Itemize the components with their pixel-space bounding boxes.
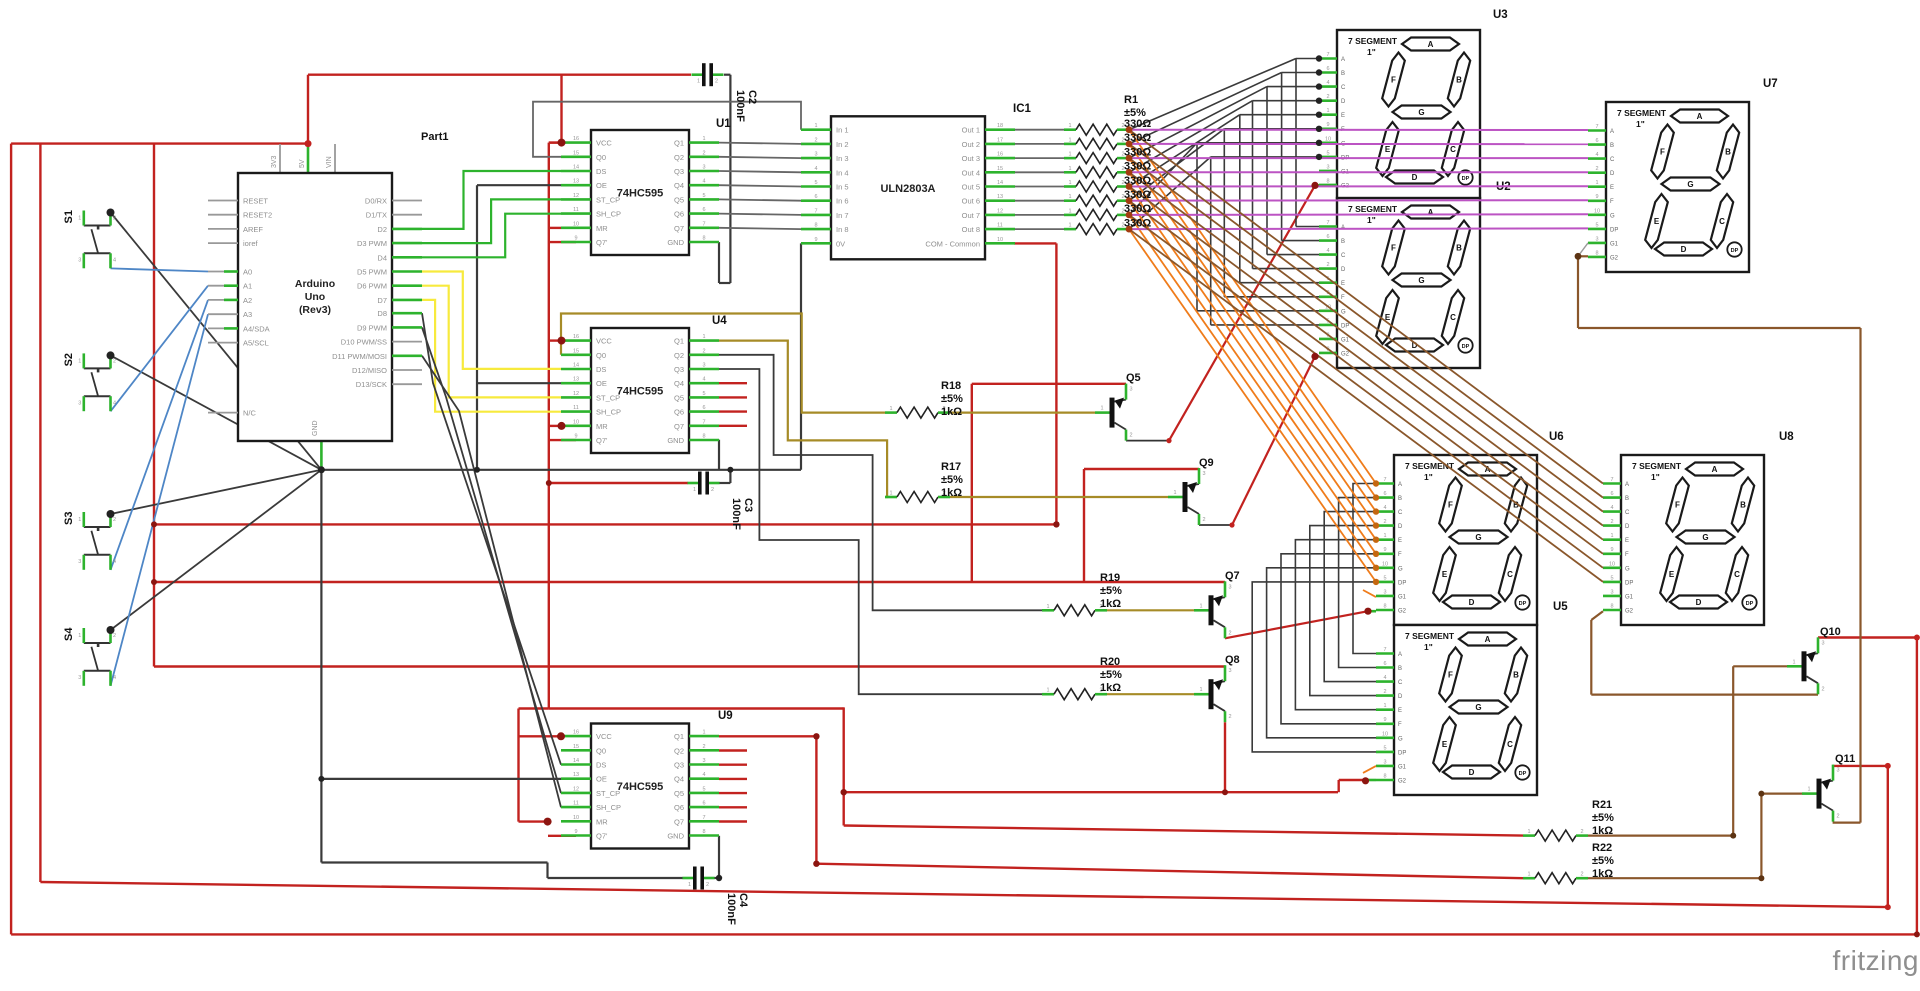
svg-text:1: 1 [1807, 787, 1810, 793]
svg-text:8: 8 [1383, 774, 1386, 780]
svg-text:Q7': Q7' [596, 436, 608, 445]
svg-text:8: 8 [1595, 250, 1598, 256]
svg-text:U3: U3 [1493, 9, 1508, 21]
svg-text:Part1: Part1 [421, 131, 449, 143]
svg-text:15: 15 [997, 166, 1003, 172]
svg-text:10: 10 [1382, 731, 1388, 737]
svg-text:D: D [1469, 768, 1475, 777]
svg-text:Q3: Q3 [674, 365, 684, 374]
svg-text:8: 8 [702, 236, 705, 242]
svg-text:DS: DS [596, 761, 606, 770]
svg-text:2: 2 [1595, 166, 1598, 172]
svg-text:11: 11 [573, 801, 579, 807]
svg-text:7: 7 [814, 208, 817, 214]
svg-text:D13/SCK: D13/SCK [356, 380, 387, 389]
svg-text:3V3: 3V3 [271, 155, 278, 168]
svg-text:SH_CP: SH_CP [596, 210, 621, 219]
svg-text:2: 2 [1836, 814, 1839, 820]
svg-text:N/C: N/C [243, 409, 257, 418]
svg-text:2: 2 [1821, 686, 1824, 692]
svg-text:G: G [1610, 213, 1615, 219]
svg-text:Out 5: Out 5 [962, 183, 980, 192]
svg-text:3: 3 [702, 363, 705, 369]
svg-text:6: 6 [702, 801, 705, 807]
svg-text:7: 7 [1383, 647, 1386, 653]
svg-text:A: A [1712, 465, 1718, 474]
svg-text:74HC595: 74HC595 [617, 386, 663, 398]
svg-text:1: 1 [78, 517, 81, 523]
svg-text:F: F [1610, 199, 1614, 205]
svg-text:B: B [1513, 671, 1519, 680]
svg-text:1: 1 [1383, 533, 1386, 539]
svg-text:E: E [1398, 708, 1402, 714]
svg-text:5: 5 [1383, 575, 1386, 581]
svg-text:U1: U1 [716, 118, 731, 130]
svg-text:±5%: ±5% [941, 393, 963, 405]
svg-text:3: 3 [1326, 164, 1329, 170]
svg-text:7 SEGMENT: 7 SEGMENT [1405, 631, 1455, 641]
svg-text:B: B [1341, 71, 1345, 77]
svg-text:A5/SCL: A5/SCL [243, 339, 269, 348]
svg-text:1: 1 [1068, 223, 1071, 229]
svg-text:GND: GND [667, 436, 684, 445]
svg-text:3: 3 [78, 675, 81, 681]
svg-text:Q10: Q10 [1820, 626, 1841, 638]
svg-text:G2: G2 [1398, 609, 1407, 615]
svg-text:IC1: IC1 [1013, 103, 1032, 115]
svg-text:3: 3 [1610, 589, 1613, 595]
svg-text:7 SEGMENT: 7 SEGMENT [1632, 461, 1682, 471]
svg-text:RESET2: RESET2 [243, 211, 272, 220]
svg-text:F: F [1341, 295, 1345, 301]
svg-text:13: 13 [573, 179, 579, 185]
svg-text:In 5: In 5 [836, 183, 849, 192]
svg-text:1": 1" [1424, 472, 1433, 482]
svg-text:A: A [1398, 482, 1402, 488]
svg-text:Q2: Q2 [674, 153, 684, 162]
svg-text:5: 5 [1383, 745, 1386, 751]
svg-text:1: 1 [1383, 703, 1386, 709]
svg-text:12: 12 [573, 786, 579, 792]
svg-text:6: 6 [814, 194, 817, 200]
svg-text:Out 8: Out 8 [962, 225, 980, 234]
svg-text:2: 2 [113, 633, 116, 639]
svg-text:6: 6 [1326, 234, 1329, 240]
svg-text:GND: GND [312, 420, 319, 436]
svg-text:In 7: In 7 [836, 211, 849, 220]
svg-text:2: 2 [113, 216, 116, 222]
svg-text:Q11: Q11 [1835, 753, 1855, 765]
svg-text:R22: R22 [1592, 842, 1612, 854]
svg-text:11: 11 [997, 223, 1003, 229]
svg-text:In 8: In 8 [836, 225, 849, 234]
svg-text:100nF: 100nF [725, 893, 737, 925]
svg-text:Q7': Q7' [596, 832, 608, 841]
svg-text:Q5: Q5 [674, 393, 684, 402]
svg-text:E: E [1669, 570, 1675, 579]
svg-text:1: 1 [1199, 687, 1202, 693]
svg-text:9: 9 [1383, 717, 1386, 723]
svg-text:±5%: ±5% [1592, 812, 1614, 824]
svg-text:Q9: Q9 [1199, 457, 1214, 469]
svg-text:2: 2 [1326, 94, 1329, 100]
svg-text:100nF: 100nF [734, 90, 746, 122]
svg-text:Q5: Q5 [674, 195, 684, 204]
svg-text:3: 3 [1383, 589, 1386, 595]
svg-text:D5 PWM: D5 PWM [357, 268, 387, 277]
svg-text:2: 2 [814, 137, 817, 143]
svg-text:1: 1 [702, 334, 705, 340]
svg-text:1: 1 [1792, 659, 1795, 665]
svg-text:G: G [1475, 533, 1481, 542]
svg-text:ULN2803A: ULN2803A [880, 183, 935, 195]
svg-text:7: 7 [702, 815, 705, 821]
svg-text:VCC: VCC [596, 139, 612, 148]
svg-text:2: 2 [1580, 872, 1583, 878]
svg-text:D0/R​X: D0/R​X [365, 197, 387, 206]
svg-text:4: 4 [702, 377, 705, 383]
svg-text:5: 5 [1595, 222, 1598, 228]
svg-text:E: E [1442, 740, 1448, 749]
svg-text:D8: D8 [377, 309, 387, 318]
svg-text:(Rev3): (Rev3) [299, 304, 331, 316]
svg-text:A: A [1485, 635, 1491, 644]
svg-text:4: 4 [113, 258, 116, 264]
svg-text:VCC: VCC [596, 732, 612, 741]
svg-text:DP: DP [1398, 750, 1406, 756]
svg-text:7: 7 [1326, 220, 1329, 226]
svg-text:7 SEGMENT: 7 SEGMENT [1348, 204, 1398, 214]
svg-text:1: 1 [697, 79, 700, 85]
svg-text:1: 1 [1068, 152, 1071, 158]
svg-text:G: G [1418, 276, 1424, 285]
svg-text:Q5: Q5 [1126, 372, 1141, 384]
svg-text:6: 6 [1610, 491, 1613, 497]
svg-text:G: G [1398, 736, 1403, 742]
svg-text:Q8: Q8 [1225, 654, 1240, 666]
svg-text:D: D [1681, 245, 1687, 254]
svg-text:E: E [1341, 113, 1345, 119]
svg-text:6: 6 [1383, 661, 1386, 667]
svg-text:DS: DS [596, 365, 606, 374]
svg-text:Q7: Q7 [674, 422, 684, 431]
svg-text:DP: DP [1398, 580, 1406, 586]
svg-text:S1: S1 [63, 210, 75, 223]
svg-text:1kΩ: 1kΩ [941, 406, 962, 418]
svg-text:2: 2 [1383, 519, 1386, 525]
svg-text:G2: G2 [1625, 609, 1634, 615]
svg-text:U5: U5 [1553, 601, 1568, 613]
svg-text:SH_CP: SH_CP [596, 408, 621, 417]
svg-text:S3: S3 [63, 512, 75, 525]
svg-text:16: 16 [997, 152, 1003, 158]
svg-text:A1: A1 [243, 282, 252, 291]
svg-text:9: 9 [574, 236, 577, 242]
svg-text:In 2: In 2 [836, 140, 849, 149]
svg-text:C2: C2 [746, 90, 758, 104]
svg-text:8: 8 [702, 829, 705, 835]
svg-text:3: 3 [1129, 387, 1132, 393]
svg-text:1: 1 [702, 136, 705, 142]
svg-text:1: 1 [1100, 406, 1103, 412]
svg-text:15: 15 [573, 744, 579, 750]
svg-text:D4: D4 [377, 253, 387, 262]
svg-text:Out 4: Out 4 [962, 168, 980, 177]
svg-text:3: 3 [78, 258, 81, 264]
svg-text:VIN: VIN [326, 156, 333, 168]
svg-text:9: 9 [1610, 547, 1613, 553]
svg-text:C: C [1341, 85, 1346, 91]
svg-text:2: 2 [113, 358, 116, 364]
svg-text:DP: DP [1519, 601, 1527, 607]
svg-text:D2: D2 [377, 225, 387, 234]
svg-text:D9 PWM: D9 PWM [357, 323, 387, 332]
svg-text:E: E [1341, 281, 1345, 287]
svg-text:OE: OE [596, 775, 607, 784]
svg-text:2: 2 [715, 79, 718, 85]
svg-text:1: 1 [1068, 166, 1071, 172]
svg-text:12: 12 [997, 208, 1003, 214]
svg-text:SH_CP: SH_CP [596, 803, 621, 812]
svg-text:18: 18 [997, 123, 1003, 129]
svg-text:AREF: AREF [243, 225, 263, 234]
svg-text:A: A [1625, 482, 1629, 488]
svg-text:2: 2 [1202, 517, 1205, 523]
svg-text:Q4: Q4 [674, 775, 684, 784]
svg-text:1: 1 [78, 633, 81, 639]
svg-text:4: 4 [1326, 80, 1329, 86]
svg-text:Out 3: Out 3 [962, 154, 980, 163]
svg-text:D: D [1610, 171, 1615, 177]
svg-text:8: 8 [1326, 178, 1329, 184]
svg-text:4: 4 [1383, 505, 1386, 511]
svg-text:9: 9 [574, 434, 577, 440]
svg-text:Out 1: Out 1 [962, 126, 980, 135]
svg-text:R18: R18 [941, 380, 961, 392]
svg-text:R1: R1 [1124, 94, 1138, 106]
svg-text:Out 7: Out 7 [962, 211, 980, 220]
svg-text:2: 2 [1383, 689, 1386, 695]
svg-text:Q3: Q3 [674, 167, 684, 176]
svg-text:G1: G1 [1610, 241, 1619, 247]
svg-text:2: 2 [1326, 262, 1329, 268]
svg-text:±5%: ±5% [1592, 855, 1614, 867]
svg-text:3: 3 [78, 559, 81, 565]
svg-text:Q0: Q0 [596, 746, 606, 755]
svg-text:10: 10 [573, 221, 579, 227]
svg-text:6: 6 [1595, 138, 1598, 144]
svg-text:8: 8 [1383, 604, 1386, 610]
svg-text:7: 7 [1383, 477, 1386, 483]
svg-text:10: 10 [573, 419, 579, 425]
svg-text:1: 1 [1527, 829, 1530, 835]
svg-text:Q0: Q0 [596, 153, 606, 162]
svg-text:B: B [1625, 496, 1629, 502]
svg-text:B: B [1456, 244, 1462, 253]
svg-text:5: 5 [1326, 150, 1329, 156]
svg-text:B: B [1725, 148, 1731, 157]
svg-text:G2: G2 [1398, 779, 1407, 785]
svg-text:G: G [1398, 566, 1403, 572]
svg-text:10: 10 [573, 815, 579, 821]
svg-text:9: 9 [814, 237, 817, 243]
svg-text:1: 1 [1326, 108, 1329, 114]
svg-text:F: F [1660, 148, 1665, 157]
svg-text:OE: OE [596, 379, 607, 388]
svg-text:C3: C3 [742, 498, 754, 512]
svg-text:Q2: Q2 [674, 746, 684, 755]
svg-text:C4: C4 [737, 893, 749, 908]
svg-text:D1/TX: D1/TX [366, 211, 387, 220]
svg-text:4: 4 [1595, 152, 1598, 158]
svg-text:1: 1 [1173, 490, 1176, 496]
svg-text:1: 1 [1610, 533, 1613, 539]
svg-text:U6: U6 [1549, 431, 1564, 443]
svg-text:4: 4 [1326, 248, 1329, 254]
svg-text:74HC595: 74HC595 [617, 781, 663, 793]
svg-text:U4: U4 [712, 315, 727, 327]
svg-text:3: 3 [1228, 668, 1231, 674]
svg-text:1kΩ: 1kΩ [1592, 868, 1613, 880]
svg-text:1: 1 [688, 882, 691, 888]
svg-text:3: 3 [1821, 640, 1824, 646]
svg-text:1": 1" [1367, 215, 1376, 225]
svg-text:Q3: Q3 [674, 761, 684, 770]
svg-text:Q5: Q5 [674, 789, 684, 798]
svg-text:1: 1 [1527, 872, 1530, 878]
svg-text:E: E [1442, 570, 1448, 579]
svg-text:8: 8 [1610, 604, 1613, 610]
svg-text:In 3: In 3 [836, 154, 849, 163]
svg-text:DP: DP [1610, 227, 1618, 233]
svg-text:5: 5 [702, 193, 705, 199]
svg-text:Q6: Q6 [674, 803, 684, 812]
svg-text:G: G [1418, 108, 1424, 117]
svg-text:3: 3 [1595, 236, 1598, 242]
svg-text:2: 2 [113, 517, 116, 523]
svg-text:3: 3 [1228, 584, 1231, 590]
svg-text:8: 8 [702, 434, 705, 440]
svg-text:2: 2 [702, 744, 705, 750]
svg-text:14: 14 [997, 180, 1003, 186]
svg-text:F: F [1448, 671, 1453, 680]
svg-text:1: 1 [1595, 180, 1598, 186]
svg-text:VCC: VCC [596, 337, 612, 346]
svg-text:2: 2 [711, 487, 714, 493]
svg-text:Q0: Q0 [596, 351, 606, 360]
svg-text:3: 3 [1836, 768, 1839, 774]
svg-text:1kΩ: 1kΩ [1100, 598, 1121, 610]
svg-text:D11 PWM/MOSI: D11 PWM/MOSI [332, 352, 387, 361]
svg-text:G1: G1 [1398, 764, 1407, 770]
svg-text:F: F [1398, 722, 1402, 728]
svg-text:4: 4 [1383, 675, 1386, 681]
svg-text:1: 1 [1046, 604, 1049, 610]
svg-text:OE: OE [596, 181, 607, 190]
svg-text:Q4: Q4 [674, 181, 684, 190]
svg-text:5: 5 [702, 786, 705, 792]
svg-text:Out 2: Out 2 [962, 140, 980, 149]
svg-text:Q7': Q7' [596, 238, 608, 247]
svg-text:A: A [1341, 57, 1345, 63]
svg-text:13: 13 [573, 772, 579, 778]
svg-text:1: 1 [1046, 688, 1049, 694]
svg-text:C: C [1507, 740, 1513, 749]
svg-text:7: 7 [1610, 477, 1613, 483]
svg-text:U8: U8 [1779, 431, 1794, 443]
svg-text:4: 4 [113, 559, 116, 565]
svg-text:4: 4 [113, 675, 116, 681]
svg-text:1": 1" [1636, 119, 1645, 129]
svg-text:D: D [1625, 524, 1630, 530]
svg-text:15: 15 [573, 150, 579, 156]
svg-text:D: D [1696, 598, 1702, 607]
svg-text:U7: U7 [1763, 78, 1778, 90]
svg-text:1: 1 [889, 406, 892, 412]
svg-text:4: 4 [1610, 505, 1613, 511]
svg-text:3: 3 [78, 400, 81, 406]
svg-text:4: 4 [702, 772, 705, 778]
svg-text:16: 16 [573, 136, 579, 142]
svg-text:F: F [1391, 244, 1396, 253]
svg-text:10: 10 [1325, 136, 1331, 142]
svg-text:A: A [1610, 129, 1614, 135]
svg-text:7: 7 [702, 221, 705, 227]
svg-text:C: C [1450, 145, 1456, 154]
svg-text:E: E [1625, 538, 1629, 544]
svg-text:DP: DP [1341, 323, 1349, 329]
svg-text:Q1: Q1 [674, 732, 684, 741]
svg-text:1: 1 [889, 491, 892, 497]
svg-text:GND: GND [667, 238, 684, 247]
svg-text:12: 12 [573, 193, 579, 199]
svg-text:DP: DP [1462, 176, 1470, 182]
svg-text:1: 1 [78, 358, 81, 364]
svg-text:2: 2 [702, 150, 705, 156]
svg-text:A: A [1428, 208, 1434, 217]
svg-text:S2: S2 [63, 353, 75, 366]
svg-text:5: 5 [702, 391, 705, 397]
svg-text:D12/MISO: D12/MISO [352, 366, 387, 375]
svg-text:fritzing: fritzing [1833, 945, 1919, 976]
svg-text:Q7: Q7 [674, 817, 684, 826]
svg-text:G1: G1 [1625, 594, 1634, 600]
svg-text:±5%: ±5% [1100, 585, 1122, 597]
svg-text:1: 1 [1068, 137, 1071, 143]
svg-text:DP: DP [1731, 248, 1739, 254]
svg-text:2: 2 [706, 882, 709, 888]
svg-text:In 4: In 4 [836, 168, 849, 177]
svg-text:3: 3 [1202, 471, 1205, 477]
svg-text:14: 14 [573, 165, 579, 171]
svg-text:6: 6 [702, 207, 705, 213]
svg-text:100nF: 100nF [730, 498, 742, 530]
svg-text:D: D [1341, 267, 1346, 273]
svg-text:DP: DP [1746, 601, 1754, 607]
svg-text:MR: MR [596, 224, 608, 233]
svg-text:G: G [1687, 180, 1693, 189]
svg-text:14: 14 [573, 758, 579, 764]
svg-text:7 SEGMENT: 7 SEGMENT [1617, 108, 1667, 118]
svg-text:F: F [1448, 501, 1453, 510]
svg-text:1: 1 [702, 730, 705, 736]
svg-text:11: 11 [573, 207, 579, 213]
svg-text:1: 1 [1068, 208, 1071, 214]
svg-text:G1: G1 [1341, 337, 1350, 343]
svg-text:R19: R19 [1100, 572, 1120, 584]
svg-text:D: D [1412, 173, 1418, 182]
svg-text:10: 10 [997, 237, 1003, 243]
